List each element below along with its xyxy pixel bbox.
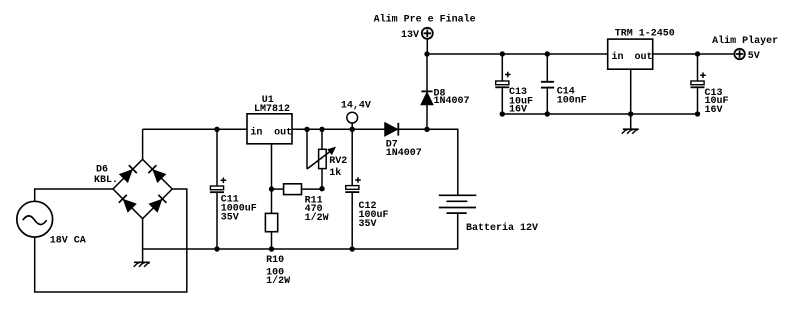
junction dot C12 bottom	[350, 246, 355, 251]
wire U1 out rail to D7 anode	[292, 128, 385, 130]
resistor R10 100 1/2W	[265, 213, 277, 249]
test point 5V Alim Player	[734, 49, 744, 59]
battery B1 Batteria 12V	[439, 195, 477, 249]
svg-text:1/2W: 1/2W	[266, 275, 290, 287]
svg-text:18V CA: 18V CA	[50, 236, 86, 247]
svg-text:Batteria 12V: Batteria 12V	[466, 222, 538, 234]
wire ground rail bottom-left	[143, 248, 458, 250]
bridge diode bottom-left (anode B, cathode L)	[119, 195, 136, 212]
capacitor C11 1000uF 35V electrolytic	[210, 129, 226, 249]
ground chassis symbol at TRM	[622, 129, 639, 134]
svg-text:100nF: 100nF	[557, 95, 587, 106]
svg-text:Alim Player: Alim Player	[712, 35, 778, 47]
bridge diode top-right (anode R, cathode T)	[148, 165, 165, 182]
svg-text:RV2: RV2	[329, 156, 347, 167]
svg-text:KBL.: KBL.	[94, 175, 118, 186]
wire TRM out to player node	[653, 53, 734, 55]
capacitor C12 100uF 35V electrolytic	[345, 129, 361, 249]
svg-text:35V: 35V	[221, 213, 239, 224]
junction dot C13 left bottom	[500, 111, 505, 116]
junction dot 13V rail start	[424, 51, 429, 56]
wire bridge bottom vertex down to ground	[142, 219, 144, 263]
bridge diode top-left (anode L, cathode T)	[120, 165, 137, 182]
junction dot C13 right top	[695, 51, 700, 56]
wire AC source top to bridge left vertex	[35, 189, 113, 201]
junction dot R10 bottom	[269, 246, 274, 251]
capacitor C13 10uF 16V electrolytic (left)	[495, 54, 510, 114]
svg-text:LM7812: LM7812	[254, 104, 290, 115]
junction dot C13 right bottom	[695, 111, 700, 116]
capacitor C14 100nF	[541, 54, 554, 114]
svg-text:16V: 16V	[705, 105, 723, 116]
wire ground rail bottom-right	[502, 113, 697, 115]
junction dot C14 top	[545, 51, 550, 56]
svg-text:TRM 1-2450: TRM 1-2450	[615, 28, 675, 39]
junction dot C14 bottom	[545, 111, 550, 116]
AC source V1 18V CA	[17, 201, 53, 237]
bridge diode bottom-right (anode B, cathode R)	[150, 195, 167, 212]
svg-text:out: out	[635, 52, 653, 63]
svg-text:1/2W: 1/2W	[305, 212, 329, 224]
junction dot C13 left top	[500, 51, 505, 56]
test point 14,4V	[347, 112, 358, 129]
test point 13V Alim Pre e Finale	[422, 28, 433, 54]
wire +rail to U1 in	[143, 128, 247, 130]
svg-text:1N4007: 1N4007	[434, 96, 470, 107]
diode D8 1N4007 vertical	[421, 54, 432, 129]
trimmer RV2 1k	[307, 129, 336, 188]
wire TRM gnd pin down	[630, 69, 632, 129]
svg-text:5V: 5V	[748, 51, 760, 62]
op-amp U1 LM7812 regulator box	[247, 114, 292, 144]
svg-text:13V: 13V	[401, 30, 419, 41]
svg-text:D6: D6	[96, 165, 108, 176]
junction dot D7/D8/battery node	[424, 127, 429, 132]
svg-text:out: out	[274, 128, 292, 139]
svg-text:Alim Pre e Finale: Alim Pre e Finale	[374, 13, 476, 25]
junction dot RV2 bottom / R11	[319, 186, 324, 191]
svg-text:R10: R10	[266, 255, 284, 266]
svg-text:35V: 35V	[359, 219, 377, 230]
junction dot C11 bottom	[214, 246, 219, 251]
svg-text:in: in	[250, 127, 262, 139]
junction dot C11 top	[214, 127, 219, 132]
regulator TRM 1-2450 box	[608, 39, 653, 69]
junction dot 14,4V node	[350, 127, 355, 132]
svg-text:1N4007: 1N4007	[386, 148, 422, 159]
junction dot RV2 top rail	[319, 127, 324, 132]
capacitor C13 10uF 16V electrolytic (right)	[691, 54, 706, 114]
bridge rectifier D6 KBL diamond edges	[113, 159, 172, 218]
wire U1 gnd pin down to R10	[271, 144, 273, 214]
svg-text:1k: 1k	[329, 167, 341, 179]
svg-text:in: in	[612, 51, 624, 63]
diode D7 1N4007	[385, 123, 427, 136]
svg-text:14,4V: 14,4V	[341, 101, 371, 112]
junction dot TRM gnd rail	[628, 111, 633, 116]
wire D7 cathode to battery corner	[427, 129, 458, 195]
wire bridge top vertex to +rail	[142, 129, 144, 159]
ground chassis symbol at bridge	[134, 262, 150, 267]
wire AC source bottom loop to bridge right vertex	[35, 189, 187, 292]
junction dot U1 gnd / R11	[269, 186, 274, 191]
wire top rail 13V node to TRM in	[427, 53, 608, 55]
resistor R11 470 1/2W	[272, 184, 323, 195]
junction dot RV2 wiper rail	[304, 127, 309, 132]
